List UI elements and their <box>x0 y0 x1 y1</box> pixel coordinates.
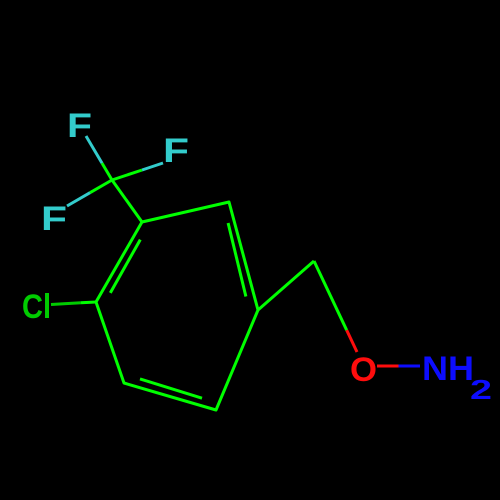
aromatic inner line C3-C4 <box>110 240 140 293</box>
svg-text:Cl: Cl <box>22 288 51 326</box>
svg-text:NH: NH <box>422 350 474 388</box>
bond O to N (N half) <box>399 365 421 368</box>
svg-text:F: F <box>163 132 189 170</box>
bond CF3 carbon to F top (C half) <box>102 163 112 180</box>
bond CF3 carbon to F right (F half) <box>142 163 163 170</box>
bond ring C4 to Cl (C half) <box>81 301 96 305</box>
aromatic inner line C1-C2 <box>228 223 246 297</box>
svg-text:2: 2 <box>470 374 492 405</box>
bond CF3 carbon to F top (F half) <box>86 136 102 163</box>
bond ring C3 to CF3 carbon <box>112 180 142 222</box>
aromatic inner line C5-C6 <box>140 379 202 398</box>
svg-text:F: F <box>67 107 92 145</box>
bond ring C1 to CH2 apex <box>258 261 314 310</box>
svg-text:O: O <box>350 351 377 389</box>
bond ring C4 to Cl (Cl half) <box>51 303 81 305</box>
bond CH2 apex to O (O half) <box>347 330 357 352</box>
svg-text:F: F <box>41 200 67 238</box>
bond CH2 apex to O (C half) <box>314 261 347 330</box>
bond CF3 carbon to F right (C half) <box>112 170 142 180</box>
bond O to N (O half) <box>377 365 399 368</box>
bond CF3 carbon to F lower-left (F half) <box>67 193 90 206</box>
benzene ring outer bonds <box>96 202 258 410</box>
bond CF3 carbon to F lower-left (C half) <box>90 180 112 193</box>
